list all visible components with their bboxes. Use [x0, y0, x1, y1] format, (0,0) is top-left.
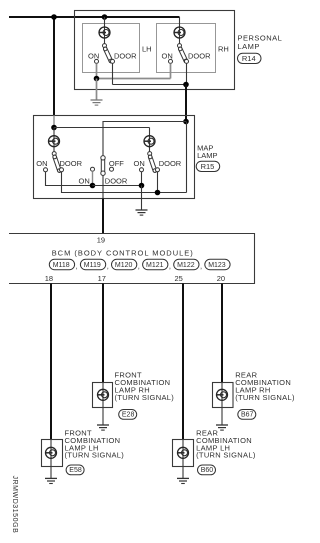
svg-text:B60: B60: [201, 467, 214, 474]
wire: BCM pin 25 to rear LH turn signal: [182, 284, 184, 440]
wire: feed to map LH bulb: [53, 128, 55, 153]
svg-text:ON: ON: [88, 51, 99, 60]
wire: through B60 bulb to ground: [182, 440, 184, 479]
bulb: personal lamp RH: [174, 27, 185, 38]
lamp: rear combination lamp LH (turn signal) B60: [173, 440, 194, 467]
wire: map LH ON drop to ON bus: [46, 172, 93, 186]
node: map ON bus / ground junction: [139, 183, 145, 189]
bulb: rear combination lamp LH: [178, 447, 189, 458]
bulb: rear combination lamp RH: [217, 389, 228, 400]
svg-text:DOOR: DOOR: [60, 159, 83, 168]
node: map ON bus junction left: [90, 183, 96, 189]
wire: BCM pin 17 to front RH turn signal: [102, 284, 104, 383]
bulb: map lamp RH: [144, 136, 155, 147]
switch lever map RH: [148, 155, 157, 173]
wire: through B67 bulb to ground: [221, 383, 223, 425]
lamp: front combination lamp LH (turn signal) E58: [42, 440, 63, 467]
svg-text:DOOR: DOOR: [188, 51, 211, 60]
bulb: front combination lamp RH: [98, 389, 109, 400]
wire: map RH DOOR drop: [157, 172, 159, 193]
slider switch map center: [101, 156, 105, 176]
wire: map ground stem: [141, 186, 143, 211]
svg-text:,: ,: [107, 262, 109, 271]
terminal OFF map slider: [110, 167, 114, 171]
wire: DOOR line drop to map DOOR bus: [186, 122, 188, 193]
wire: through E28 bulb to ground: [102, 383, 104, 425]
svg-text:(TURN SIGNAL): (TURN SIGNAL): [196, 451, 256, 460]
svg-text:B67: B67: [241, 412, 254, 419]
node: feed junction to map lamp: [51, 14, 57, 20]
wire: battery feed horizontal: [9, 16, 180, 18]
wire: personal ground drop (gray): [96, 79, 98, 101]
svg-text:E58: E58: [69, 467, 82, 474]
terminal DOOR personal LH: [111, 59, 115, 63]
connector M118: [49, 259, 74, 269]
connector M122: [174, 259, 199, 269]
svg-text:,: ,: [169, 262, 171, 271]
switch pole personal RH: [178, 44, 182, 48]
wire: DOOR line down to map lamp: [185, 85, 187, 122]
svg-text:,: ,: [200, 262, 202, 271]
wire: personal ON join bus (gray): [97, 78, 171, 80]
terminal DOOR map LH: [60, 168, 64, 172]
connector E28: [119, 410, 137, 420]
svg-text:OFF: OFF: [109, 159, 124, 168]
node: personal ON / ground junction: [94, 76, 100, 82]
svg-text:17: 17: [98, 274, 106, 283]
svg-text:20: 20: [217, 274, 225, 283]
connector M121: [143, 259, 168, 269]
node: DOOR line junction at map lamp: [183, 119, 189, 125]
switch lever map LH: [52, 155, 61, 173]
switch lever personal RH: [178, 46, 188, 63]
wire: feed to personal RH bulb and pole: [179, 17, 181, 44]
wire: feed to personal LH bulb and pole: [104, 17, 106, 44]
wire: feed branch down to map lamp: [53, 16, 55, 116]
svg-text:ON: ON: [134, 159, 145, 168]
svg-text:M121: M121: [146, 262, 164, 269]
connector B60: [198, 465, 216, 475]
connector M120: [112, 259, 137, 269]
svg-text:R15: R15: [201, 162, 215, 171]
ground: rear LH turn signal: [177, 478, 189, 483]
svg-text:,: ,: [76, 262, 78, 271]
wire: personal DOOR join: [113, 84, 187, 86]
wire: map RH ON drop: [141, 172, 143, 186]
wire: slider bottom to box edge: [102, 175, 104, 198]
wire: personal LH DOOR drop: [112, 63, 114, 84]
lamp: front combination lamp RH (turn signal) E28: [93, 383, 113, 408]
ground: map lamp: [136, 210, 148, 215]
svg-text:M119: M119: [84, 262, 101, 269]
svg-text:18: 18: [45, 274, 53, 283]
svg-text:(TURN SIGNAL): (TURN SIGNAL): [235, 393, 295, 402]
terminal DOOR map RH: [156, 168, 160, 172]
svg-text:DOOR: DOOR: [159, 159, 182, 168]
svg-text:(TURN SIGNAL): (TURN SIGNAL): [65, 451, 125, 460]
wire: personal RH DOOR drop: [186, 63, 188, 84]
svg-text:JRMWD3150GB: JRMWD3150GB: [11, 476, 18, 534]
map lamp box R15: [34, 116, 195, 199]
node: feed junction to personal LH bulb: [102, 14, 108, 20]
wire: feed drop to map RH bulb: [149, 128, 151, 153]
ground: front LH turn signal: [45, 478, 57, 483]
svg-text:ON: ON: [36, 159, 47, 168]
svg-text:BCM (BODY CONTROL MODULE): BCM (BODY CONTROL MODULE): [52, 248, 194, 257]
svg-text:M123: M123: [208, 262, 226, 269]
wire: personal RH ON drop (gray): [170, 63, 172, 78]
switch pole personal LH: [103, 44, 107, 48]
connector M123: [205, 259, 230, 269]
connector R14: [238, 53, 262, 63]
switch pole map LH: [52, 152, 56, 156]
lamp: rear combination lamp RH (turn signal) B67: [213, 383, 234, 408]
bulb: personal lamp LH: [99, 27, 110, 38]
wire: map LH DOOR drop to DOOR bus: [62, 172, 187, 193]
wire: personal LH ON drop (gray): [96, 63, 98, 78]
node: map DOOR bus junction: [155, 190, 161, 196]
terminal DOOR personal RH: [185, 59, 189, 63]
svg-text:DOOR: DOOR: [114, 51, 137, 60]
svg-text:19: 19: [97, 236, 105, 245]
svg-text:ON: ON: [162, 51, 173, 60]
switch pole map RH: [148, 152, 152, 156]
terminal ON personal LH: [95, 59, 99, 63]
wire: map ON bus: [93, 185, 142, 187]
connector B67: [238, 410, 256, 420]
svg-text:LH: LH: [142, 44, 152, 53]
node: DOOR line junction: [183, 82, 189, 88]
svg-text:M122: M122: [177, 262, 195, 269]
switch lever personal LH: [103, 46, 113, 63]
terminal ON map slider: [91, 167, 95, 171]
ground: personal lamp: [91, 100, 103, 105]
svg-text:M118: M118: [53, 262, 70, 269]
ground: front RH turn signal: [97, 425, 109, 430]
connector M119: [80, 259, 105, 269]
svg-text:LAMP: LAMP: [197, 151, 217, 160]
terminal ON map RH: [140, 168, 144, 172]
svg-text:(TURN SIGNAL): (TURN SIGNAL): [115, 393, 175, 402]
svg-text:25: 25: [175, 274, 183, 283]
svg-text:DOOR: DOOR: [105, 176, 128, 185]
personal lamp box R14: [75, 11, 235, 90]
bulb: front combination lamp LH: [46, 447, 57, 458]
node: map feed junction: [51, 125, 57, 131]
wire: map feed entry (gray): [53, 116, 55, 128]
svg-text:R14: R14: [242, 54, 256, 63]
terminal ON personal RH: [169, 59, 173, 63]
wire: map lamp to BCM pin 19: [102, 199, 104, 234]
terminal ON map LH: [44, 168, 48, 172]
BCM (body control module) box: [9, 234, 255, 284]
svg-text:RH: RH: [218, 44, 229, 53]
personal lamp RH switch inner box: [157, 24, 216, 73]
wire: BCM pin 20 to rear RH turn signal: [221, 284, 223, 383]
svg-text:,: ,: [138, 262, 140, 271]
wire: BCM pin 18 to front LH turn signal: [50, 284, 52, 440]
wire: map slider ON riser (gray): [92, 171, 94, 185]
wire: DOOR line to slider top: [103, 122, 186, 157]
svg-text:E28: E28: [122, 412, 135, 419]
wire: through E58 bulb to ground: [50, 440, 52, 479]
bulb: map lamp LH: [49, 136, 60, 147]
svg-text:LAMP: LAMP: [238, 42, 260, 51]
wire: map feed bus: [54, 127, 150, 129]
ground: rear RH turn signal: [216, 425, 228, 430]
connector E58: [66, 465, 84, 475]
svg-text:ON: ON: [79, 176, 90, 185]
svg-text:M120: M120: [115, 262, 133, 269]
personal lamp LH switch inner box: [83, 24, 140, 73]
connector R15: [196, 161, 220, 171]
